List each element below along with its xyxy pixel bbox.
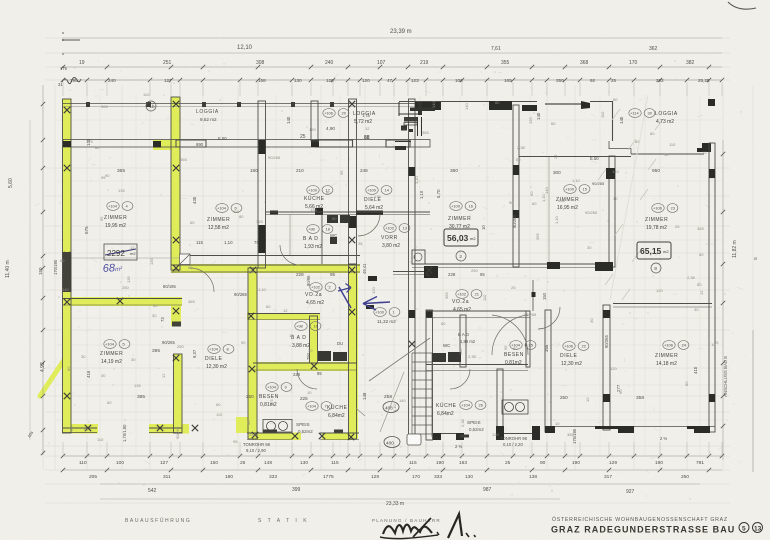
- wire wall x533 stub: [532, 280, 534, 311]
- node room label kueche 5.66: [307, 186, 333, 195]
- wire wall V2 outline: [171, 97, 180, 270]
- wire wall y264 line2: [412, 267, 613, 269]
- wire poche y212 x315: [315, 208, 323, 215]
- wire yellow-hook on V2: [153, 140, 173, 150]
- wire parapet segment x316: [316, 140, 353, 147]
- wire yellow-wall-V8 highlight: [310, 316, 319, 363]
- wire poche bottom x456: [456, 433, 464, 440]
- node room label stair node: [374, 308, 400, 317]
- wire poche bottom x433: [433, 433, 441, 440]
- wire wall x526 vorr right: [526, 311, 530, 367]
- wire bottom wall left ink2: [63, 432, 97, 434]
- wire top dimension line y67: [62, 66, 722, 68]
- wire wall x322 bad-wc divider: [321, 214, 323, 264]
- node tick guide stubs bottom: [63, 442, 722, 456]
- wire faint line y258: [63, 257, 180, 259]
- wire wall y154 right block: [631, 153, 704, 155]
- wire yellow-notch highlight: [236, 417, 250, 433]
- node scan speckle dots: [48, 60, 745, 499]
- wire top dimension line y38: [62, 37, 722, 39]
- wire yellow-wall-H6 bottom-left highlight: [62, 424, 98, 434]
- wire wall mid vertical x258: [258, 101, 266, 268]
- node room label zimmer 14.18: [663, 341, 689, 350]
- wire loggia front edge left block: [63, 103, 430, 105]
- wire right dimension column x753: [752, 330, 754, 472]
- wire parapet segment x176: [176, 140, 206, 147]
- wire wall y212 second line: [265, 214, 430, 216]
- node lift circle: [414, 253, 422, 261]
- node radiator dashes: [86, 102, 469, 438]
- wire apt C top wall2: [426, 317, 530, 319]
- node crease dashes: [598, 109, 663, 300]
- node dimension ticks top row: [61, 65, 724, 82]
- wire yellow-wall-H4 highlight: [253, 362, 357, 371]
- node room label kueche 6.84 left: [306, 402, 332, 411]
- wire poche x426 top: [426, 311, 432, 318]
- node stamp 56,03: [444, 229, 478, 246]
- wire poche bottom x496: [496, 426, 504, 440]
- node room label zimmer 12.58: [216, 204, 242, 213]
- wire loggia step v2: [630, 149, 632, 155]
- wire wall y303 far right apt top: [613, 303, 712, 305]
- node squiggle wall-top mark: [62, 78, 81, 84]
- node small box with diagonal near V2: [180, 254, 191, 265]
- wire bottom dimension line y456: [62, 455, 722, 457]
- node white box stair bottom: [407, 434, 421, 445]
- node wall junction X marks: [64, 101, 432, 440]
- wire poche top wall x522: [522, 105, 537, 111]
- wire poche x709 y169: [709, 169, 715, 178]
- wire poche top wall x415: [415, 102, 441, 110]
- wire poche x408 y310: [409, 310, 416, 318]
- wire poche x603 y310: [603, 310, 610, 318]
- node room label zimmer 19.95: [107, 202, 133, 211]
- wire poche x513 y210: [513, 210, 519, 218]
- wire light wall x549: [548, 157, 550, 265]
- node oval 480 stairwell bottom: [384, 437, 400, 448]
- node bathroom fixtures middle apt: [318, 215, 350, 361]
- wire wall x290 kueche left: [289, 214, 291, 255]
- wire poche on x258 wall upper: [259, 140, 266, 154]
- node room label vorr upper: [384, 224, 410, 233]
- wire right block top wall line: [399, 101, 537, 103]
- wire bottom dimension line y499: [100, 498, 560, 500]
- wire poche loggia band x311: [311, 140, 319, 147]
- wire right dimension column x723: [722, 140, 724, 460]
- node room label besen right: [510, 341, 536, 350]
- wire poche bottom T x595: [595, 426, 634, 433]
- wire wall y303 line2: [613, 306, 712, 308]
- node circled 13: [753, 523, 763, 533]
- wire wall x426 apt C left: [426, 310, 433, 440]
- wire wall y264 right block: [412, 263, 613, 265]
- wire loggia front edge inner: [63, 106, 430, 108]
- wire wall x497 apt C: [497, 369, 503, 439]
- wire poche y212 x356: [356, 211, 383, 216]
- wire poche bottom x532: [532, 426, 540, 440]
- wire: [42, 85, 44, 470]
- node big poche blob V1: [63, 252, 72, 292]
- wire wall x513: [513, 105, 519, 267]
- wire poche stair block y266: [424, 266, 438, 278]
- node circled 5: [739, 523, 749, 533]
- node entrance cluster right block: [395, 102, 435, 150]
- node circled number right mid: [456, 251, 466, 261]
- wire kitchen door diagonal: [356, 408, 365, 416]
- node room label kueche 6.84 right: [460, 401, 486, 410]
- wire poche x513 y165: [513, 165, 519, 175]
- wire wall x545 apt D left: [545, 310, 551, 432]
- wire loggia step h: [609, 148, 631, 150]
- node scan noise overlay: [0, 0, 1, 1]
- node circled number far right: [651, 263, 661, 273]
- wire yellow-wall-H1 mid horizontal highlight: [171, 264, 360, 273]
- wire apt D bottom wall: [545, 426, 715, 428]
- wire wall y212 kitchen-diele bottom: [265, 211, 430, 213]
- wire V5 wall outline: [174, 354, 183, 433]
- wire poche x709 y394: [709, 394, 715, 402]
- wire poche loggia band x153: [153, 141, 161, 148]
- wire apt C mid wall: [426, 364, 528, 366]
- wire loggia right corner poche: [697, 143, 711, 152]
- wire yellow-wall-V2 highlight: [171, 97, 181, 270]
- wire apt C bottom wall a: [433, 433, 464, 435]
- wire poche y212 x270: [270, 211, 278, 215]
- wire top dimension line y80: [62, 79, 722, 81]
- wire H5a ink2: [247, 439, 292, 441]
- node top-left dotted column: [62, 32, 80, 68]
- wire loggia divider x311: [311, 101, 318, 141]
- wire H1 wall top ink: [171, 264, 360, 266]
- wire H2 wall bottom ink: [62, 304, 182, 306]
- wire crease diagonal faint: [610, 95, 648, 300]
- wire stairwell right wall x408: [409, 99, 416, 440]
- node circled number left top: [146, 101, 156, 111]
- node tick guide stubs top: [63, 82, 722, 96]
- wire lift box: [412, 250, 425, 264]
- wire H1 wall bottom ink: [171, 271, 360, 273]
- wire poche y262 x595: [595, 262, 613, 271]
- wire loggia-right west arrow poche: [581, 101, 590, 109]
- node kitchen counters: [263, 400, 528, 432]
- node room label vo2a left: [310, 283, 336, 292]
- node room label zimmer 16.95: [564, 185, 590, 194]
- wire top dimension line y53: [62, 52, 722, 54]
- wire yellow-wall-H7 highlight: [149, 424, 189, 434]
- wire loggia right west wall: [612, 101, 614, 141]
- wire bottom wall H7 ink: [149, 427, 182, 429]
- wire H4 ink bottom: [253, 369, 357, 371]
- wire yellow-wall-H3 highlight: [247, 313, 320, 320]
- wire bottom dimension line y484: [100, 483, 700, 485]
- wire bottom wall H7 ink2: [149, 432, 182, 434]
- node room label bad middle apt: [295, 322, 321, 331]
- wire left dimension column x30: [29, 120, 31, 440]
- wire poche x609 y168: [606, 168, 615, 179]
- wire loggia back wall band left block: [63, 140, 430, 148]
- wire stair diagonal 2: [380, 372, 404, 432]
- node dimension ticks right column: [721, 152, 725, 428]
- node oval 488 stairwell: [383, 402, 399, 413]
- wire wall stub to loggia: [545, 103, 590, 105]
- wire H5a ink: [247, 432, 292, 434]
- wire right outer wall x709: [709, 143, 715, 432]
- wire left dimension column x43: [42, 85, 44, 455]
- node room label loggia 5.72: [323, 109, 349, 118]
- wire yellow diagonal small kitchen mark: [352, 398, 358, 402]
- wire yellow-wall-V4 highlight: [171, 297, 181, 326]
- wire wall x609 upper: [609, 156, 615, 267]
- node blue pen arrow: [363, 297, 390, 311]
- node room label diele 12.30 left: [208, 345, 234, 354]
- node room label bad upper: [307, 225, 333, 234]
- node room label zimmer 19.78: [652, 204, 678, 213]
- node room label besen left: [266, 383, 292, 392]
- wire loggia step: [608, 141, 610, 149]
- wire parapet segment x386: [386, 140, 410, 147]
- node blue pen check diagonal: [338, 284, 351, 309]
- wire yellow-wall-H5b bottom highlight: [322, 433, 352, 441]
- wire poche top wall x489: [489, 101, 512, 110]
- node room label loggia 4.73: [629, 109, 655, 118]
- wire poche y262 x547: [547, 262, 560, 269]
- node room label zimmer 30.77: [450, 202, 476, 211]
- node room label zimmer 14.19: [104, 340, 130, 349]
- wire loggia right top edge: [590, 101, 613, 103]
- wire apt C top wall: [426, 310, 530, 312]
- wire poche on x258 wall lower: [259, 225, 266, 253]
- wire apt C bottom wall b: [496, 433, 540, 435]
- wire V4 black cap: [172, 322, 181, 327]
- wire poche bottom left apt D: [545, 426, 555, 433]
- wire V7 wall outline: [248, 268, 257, 439]
- wire H2 wall top ink: [62, 298, 182, 300]
- wire yellow-wall-V7 middle apt left highlight: [248, 268, 258, 439]
- node dimension ticks left column: [41, 102, 45, 455]
- node scattered small dimension numbers: [60, 92, 719, 444]
- wire H4 ink top: [253, 362, 357, 364]
- wire poche x533: [532, 292, 536, 297]
- wire H3 ink top: [248, 313, 320, 315]
- wire VORR bottom wall2: [393, 274, 436, 276]
- wire: [485, 78, 488, 80]
- wire apt C mid wall2: [426, 370, 528, 372]
- node signature handwritten: [380, 514, 476, 539]
- wire yellow-wall-V1 left outer wall highlight: [63, 99, 72, 433]
- node door arcs VORR right: [190, 214, 560, 389]
- wire yellow-wall-H2 highlight: [62, 297, 182, 306]
- wire poche x603 y394: [603, 394, 610, 402]
- wire bottom wall left ink: [63, 427, 97, 429]
- node room label diele 12.30 right: [563, 342, 589, 351]
- wire yellow diagonal stray mark: [40, 360, 64, 396]
- wire poche x408 y167: [409, 167, 416, 176]
- wire stair diagonal: [369, 338, 430, 381]
- node dimension ticks bottom rows: [61, 454, 724, 472]
- wire poche bottom T x687: [687, 426, 710, 433]
- wire bottom dimension line y470: [62, 469, 722, 471]
- wire wall V1 outline: [63, 99, 72, 433]
- wire yellow-wall-V5 highlight: [174, 354, 183, 433]
- wire poche x709 top: [708, 99, 715, 106]
- node staircase treads: [412, 353, 432, 437]
- node bathroom fixtures apt C: [432, 352, 461, 362]
- wire poche stair door bottom: [366, 305, 374, 309]
- wire wall y255: [180, 255, 360, 257]
- wire H5b ink: [320, 432, 359, 434]
- node stamp 65,15: [637, 242, 671, 259]
- wire wall V6 lower outline: [349, 264, 357, 439]
- node stamp 2292 crossed: [104, 244, 137, 260]
- wire wall x460 apt C: [460, 315, 466, 367]
- wire H5b ink2: [320, 439, 359, 441]
- wire wall x603 apt D: [603, 305, 610, 430]
- wire V8 wall outline: [310, 316, 318, 363]
- node room label vo2a right: [456, 290, 482, 299]
- wire poche x348 y216: [349, 216, 357, 228]
- wire extra faint interior guides: [55, 95, 722, 455]
- wire poche stair door top: [368, 276, 377, 281]
- wire VORR bottom wall: [393, 271, 436, 273]
- node room label diele 5.64: [366, 186, 392, 195]
- wire wall V6 upper grey part: [349, 99, 357, 264]
- wire wall y156 right block: [519, 156, 631, 158]
- wire yellow-wall-H5a bottom highlight: [252, 433, 301, 441]
- wire poche loggia band x63: [63, 141, 71, 147]
- node pen curve top right corner: [728, 2, 756, 9]
- wire H3 ink bottom: [248, 319, 320, 321]
- wire yellow-wall-V6 highlight: [349, 264, 359, 439]
